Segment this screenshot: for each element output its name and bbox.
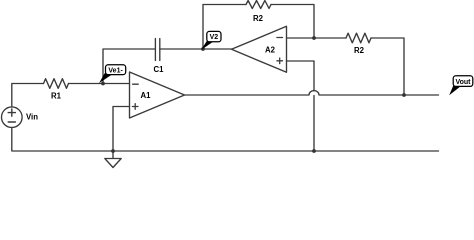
svg-text:R2: R2: [253, 14, 264, 23]
svg-text:R2: R2: [354, 46, 365, 55]
node label V2: [201, 31, 221, 50]
wire C1 branch vertical: [103, 49, 155, 84]
wire R1 to A1 inverting input: [69, 83, 130, 85]
junction ground / A1 plus: [111, 149, 115, 153]
wire C1 to A2 output: [160, 48, 232, 50]
resistor R2 (right): [346, 33, 371, 43]
resistor R1: [44, 79, 69, 89]
op-amp A1: [130, 72, 185, 118]
junction R2 top / A2 inverting: [312, 36, 316, 40]
wire R2 top to junction: [271, 5, 314, 39]
wire A2 inverting input to R2 right: [287, 37, 347, 39]
node label Ve1-: [99, 65, 126, 84]
component value labels: [26, 14, 365, 122]
node junction V2: [201, 47, 205, 51]
svg-text:A1: A1: [141, 91, 152, 100]
voltage source Vin: [2, 107, 23, 128]
wire R2 right to output junction: [371, 38, 404, 95]
svg-text:Vout: Vout: [455, 79, 471, 86]
capacitor C1: [155, 39, 159, 61]
node junction C1 branch: [101, 82, 105, 86]
svg-text:Vin: Vin: [26, 113, 38, 122]
svg-text:A2: A2: [265, 46, 276, 55]
op-amp A2 (mirrored, points left): [232, 26, 287, 72]
junction A2 plus / rail: [312, 149, 316, 153]
wire V2 node up to feedback: [203, 5, 246, 50]
node label Vout: [449, 76, 473, 95]
wire A1 non-inverting input: [113, 107, 130, 152]
wire Vin top to R1: [12, 84, 44, 107]
svg-text:Ve1-: Ve1-: [108, 67, 123, 74]
junction R2 right / A1 output: [402, 93, 406, 97]
wire A1 output with hop over vertical: [185, 91, 439, 95]
svg-text:C1: C1: [154, 65, 165, 74]
ground symbol: [105, 151, 121, 168]
svg-text:V2: V2: [210, 34, 219, 41]
ground rail: [12, 128, 439, 152]
svg-text:R1: R1: [51, 92, 62, 101]
resistor R2 (top feedback): [246, 1, 271, 9]
wire A2 non-inverting input down to ground rail: [287, 61, 315, 151]
